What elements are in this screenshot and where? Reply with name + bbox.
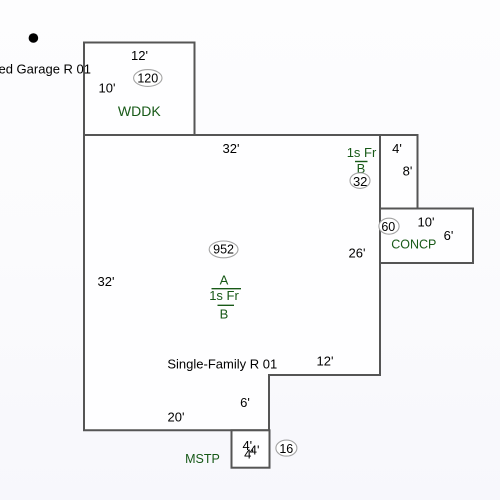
svg-text:A: A (220, 273, 229, 288)
main area ellipse 952 (209, 241, 238, 258)
svg-text:6': 6' (444, 228, 454, 243)
stoop MSTP outline (232, 430, 270, 467)
svg-text:10': 10' (418, 215, 435, 230)
svg-text:CONCP: CONCP (391, 237, 436, 251)
stoop area ellipse 16 (276, 440, 297, 456)
svg-text:12': 12' (317, 354, 334, 369)
svg-text:4': 4' (244, 446, 254, 461)
svg-text:952: 952 (213, 243, 234, 257)
concrete patio CONCP outline (380, 209, 473, 264)
svg-text:20': 20' (168, 410, 185, 425)
fraction bar (218, 304, 235, 306)
svg-text:4': 4' (392, 141, 402, 156)
point marker dot (29, 33, 39, 43)
svg-text:120: 120 (137, 72, 158, 86)
deck WDDK outline (84, 43, 195, 136)
area ellipse 32 (350, 173, 370, 189)
svg-text:26': 26' (349, 246, 366, 261)
svg-text:WDDK: WDDK (118, 103, 161, 119)
patio area ellipse 60 (379, 218, 399, 234)
svg-text:32: 32 (353, 174, 367, 189)
fraction bar (355, 161, 368, 163)
svg-text:32': 32' (223, 141, 240, 156)
svg-text:8': 8' (403, 164, 413, 179)
svg-text:12': 12' (131, 48, 148, 63)
main building outline Single-Family (84, 135, 380, 430)
svg-text:10': 10' (99, 81, 116, 96)
svg-text:60: 60 (381, 220, 395, 234)
fraction bar (212, 288, 242, 290)
svg-text:B: B (220, 307, 229, 322)
svg-text:1s Fr: 1s Fr (347, 145, 377, 160)
svg-text:MSTP: MSTP (185, 452, 220, 466)
svg-text:16: 16 (279, 442, 293, 456)
top-right porch outline 4x8 (380, 135, 418, 209)
svg-text:Detached Garage R 01: Detached Garage R 01 (0, 62, 91, 77)
svg-text:1s Fr: 1s Fr (209, 288, 239, 303)
svg-text:6': 6' (240, 395, 250, 410)
deck area ellipse 120 (134, 70, 162, 87)
svg-text:Single-Family R 01: Single-Family R 01 (167, 357, 277, 372)
svg-text:32': 32' (98, 274, 115, 289)
